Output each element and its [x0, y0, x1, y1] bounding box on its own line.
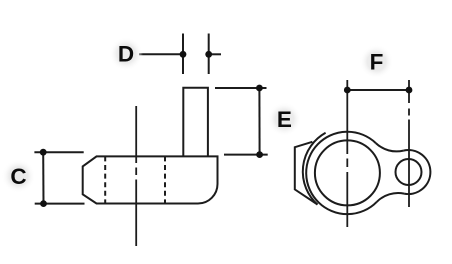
centerline of boss (dash-dot vertical)	[346, 80, 348, 227]
dimension E dot bottom	[256, 151, 263, 158]
label halo F	[360, 45, 394, 79]
fillet top between boss and lug	[376, 143, 404, 151]
dimension E vertical line	[258, 88, 260, 155]
centerline of body (vertical)	[135, 106, 137, 246]
svg-text:C: C	[10, 164, 26, 189]
label halo D	[109, 37, 143, 71]
flange tab outline	[295, 142, 318, 205]
dimension D extension line right	[208, 34, 210, 75]
dimension F line	[347, 89, 409, 91]
inner circle of boss	[315, 140, 380, 205]
dimension F dot left	[344, 87, 351, 94]
dimension C dot top	[40, 149, 47, 156]
svg-text:F: F	[370, 50, 384, 75]
dimension C dot bottom	[40, 200, 47, 207]
dimension C line	[42, 152, 44, 203]
dimension E bottom tick	[224, 154, 268, 156]
outer arc of boss (right view)	[306, 132, 377, 214]
dimension F dot right	[406, 87, 413, 94]
dimension D dot right	[205, 51, 212, 58]
hidden line (dashed) right	[164, 156, 166, 203]
svg-text:E: E	[277, 107, 292, 132]
hidden line (dashed) left	[104, 156, 106, 203]
dimension D stub right	[209, 53, 221, 55]
stem (pin) outline	[183, 88, 208, 157]
fillet bottom between boss and lug	[377, 193, 404, 202]
lug outer arc	[403, 150, 430, 194]
dimension E top line	[215, 87, 267, 89]
dimension D extension line left	[182, 34, 184, 75]
label halo C	[2, 159, 36, 193]
dimension C extension line bottom	[35, 203, 85, 205]
dimension D leader line	[139, 53, 183, 55]
body outline	[83, 156, 218, 203]
centerline of lug hole (dash-dot vertical)	[408, 80, 410, 207]
dimension D dot left	[180, 51, 187, 58]
hole circle in lug	[396, 159, 422, 185]
label halo E	[267, 102, 301, 136]
svg-text:D: D	[118, 42, 134, 67]
dimension E dot top	[256, 85, 263, 92]
dimension C extension line top	[34, 151, 83, 153]
flange curved edge arc	[303, 133, 326, 205]
